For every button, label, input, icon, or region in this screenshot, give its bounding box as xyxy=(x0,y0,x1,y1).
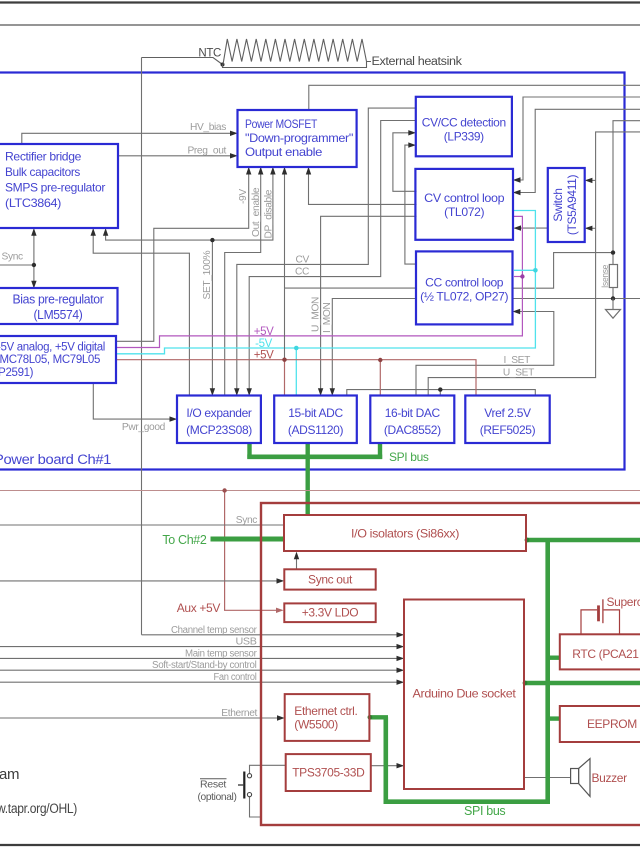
svg-text:Channel temp sensor: Channel temp sensor xyxy=(171,625,257,636)
junction -5V cyan right xyxy=(533,268,538,273)
block CV control loop (TL072) xyxy=(415,169,513,240)
wire Main temp sensor xyxy=(0,657,398,659)
svg-text:TPS3705-33D: TPS3705-33D xyxy=(292,766,365,780)
svg-text:CC: CC xyxy=(295,267,309,278)
wire switch to CV loop xyxy=(516,227,548,229)
svg-text:-5V: -5V xyxy=(255,338,273,350)
svg-text:I_SET: I_SET xyxy=(503,355,530,366)
junction Aux +5V xyxy=(222,488,226,492)
ground symbol xyxy=(612,299,614,310)
junction NTC xyxy=(221,63,225,67)
svg-text:Output enable: Output enable xyxy=(245,145,323,159)
svg-text:(½ TL072, OP27): (½ TL072, OP27) xyxy=(420,290,508,304)
svg-text:U_SET: U_SET xyxy=(503,368,534,379)
junction SPI isolators xyxy=(525,538,530,543)
wire MOSFET bottom pin 4 xyxy=(284,168,286,288)
block I/O expander (MCP23S08) xyxy=(177,396,261,444)
svg-text:-5V analog, +5V digital: -5V analog, +5V digital xyxy=(0,342,105,354)
wire voltage sense B from right edge to CV loop xyxy=(515,109,640,192)
arrowhead Out enable into MOSFET xyxy=(258,167,263,175)
svg-text:(LTC3864): (LTC3864) xyxy=(5,196,61,210)
block 15-bit ADC (ADS1120) xyxy=(274,396,357,444)
wire I/O expander to rectifier enable xyxy=(93,230,189,395)
svg-text:DP_disable: DP_disable xyxy=(264,189,275,238)
block -5V analog +5V digital regulators xyxy=(0,336,116,383)
arrowhead into isolators bottom xyxy=(294,552,299,560)
wire +5V digital (red) xyxy=(116,360,476,395)
wire Sync out to isolators xyxy=(296,554,298,569)
svg-text:Sync: Sync xyxy=(2,252,24,263)
wire MOSFET net to CC loop xyxy=(285,287,417,289)
wire I_MON xyxy=(332,299,416,394)
arrowhead into Sync out box xyxy=(277,578,285,583)
block Arduino Due socket xyxy=(404,600,524,790)
svg-text:I/O isolators (Si86xx): I/O isolators (Si86xx) xyxy=(351,527,459,541)
svg-text:(LM5574): (LM5574) xyxy=(34,308,83,322)
svg-text:SPI bus: SPI bus xyxy=(389,450,429,464)
SPI bus trunk power side xyxy=(247,454,382,459)
junction SPI Arduino xyxy=(523,681,528,686)
wire -5V cyan branch into CC loop xyxy=(514,269,535,271)
wire channel temp sensor vertical xyxy=(141,58,143,635)
wire CC loop to Isense top xyxy=(513,253,614,289)
arrowhead Main temp sensor into Arduino xyxy=(397,656,405,661)
arrowhead Aux +5V into LDO xyxy=(276,608,284,613)
svg-text:SMPS pre-regulator: SMPS pre-regulator xyxy=(5,181,105,195)
svg-text:am: am xyxy=(0,766,19,783)
wire -5V analog (cyan) xyxy=(116,211,535,354)
svg-text:HV_bias: HV_bias xyxy=(190,122,226,133)
wire CC loop output to detector xyxy=(405,145,416,264)
wire HV_bias xyxy=(22,133,231,143)
arrowhead into rectifier bottom 3 xyxy=(103,228,108,236)
svg-text:Pwr_good: Pwr_good xyxy=(122,422,166,433)
wire NTC feed xyxy=(142,58,223,65)
SPI bus Arduino to right edge xyxy=(524,681,640,686)
wire reset button bottom xyxy=(250,797,262,817)
frame line top xyxy=(0,1,640,3)
junction -5V cyan left xyxy=(294,346,299,351)
SPI bus branch Ethernet xyxy=(369,715,388,719)
NTC coil baseline xyxy=(223,62,367,68)
svg-text:Power board Ch#1: Power board Ch#1 xyxy=(0,452,111,467)
block +3.3V LDO xyxy=(284,603,375,622)
block EEPROM xyxy=(560,706,640,742)
svg-text:USB: USB xyxy=(236,637,258,648)
wire Arduino to buzzer xyxy=(524,777,571,779)
arrowhead into CV/CC detection 1 xyxy=(408,130,416,135)
svg-text:+5V: +5V xyxy=(254,350,274,362)
svg-text:Preg_out: Preg_out xyxy=(187,146,226,157)
arrowhead switch into CV loop xyxy=(513,225,521,230)
arrowhead Pwr_good into I/O expander xyxy=(170,416,178,421)
frame line second xyxy=(0,24,640,26)
svg-text:EEPROM: EEPROM xyxy=(587,717,637,731)
wire MOSFET power output to right edge xyxy=(309,85,640,109)
block rectifier bridge / SMPS pre-regulator (LTC3864) xyxy=(0,144,118,228)
wire DP disable net xyxy=(106,168,273,240)
capacitor supercap xyxy=(581,610,597,634)
junction Vref branch xyxy=(438,387,442,391)
arrowhead I_MON into ADC xyxy=(330,388,335,396)
arrowhead Fan control into Arduino xyxy=(397,680,405,685)
svg-text:(DAC8552): (DAC8552) xyxy=(384,423,441,437)
wire Sync from left edge xyxy=(0,264,34,266)
svg-text:Arduino Due socket: Arduino Due socket xyxy=(413,687,517,701)
wire I_SET net xyxy=(416,312,554,395)
arrowhead Soft-start/Stand-by control into Arduino xyxy=(397,668,405,673)
svg-text:Main temp sensor: Main temp sensor xyxy=(185,648,257,659)
arrowhead USB into Arduino xyxy=(397,644,405,649)
svg-text:To Ch#2: To Ch#2 xyxy=(162,533,207,547)
wire Isense bottom / output return xyxy=(513,298,640,300)
wire U_SET net xyxy=(428,132,640,395)
wire aux supply rail xyxy=(0,490,640,492)
arrowhead U_MON into ADC xyxy=(318,388,323,396)
wire +5V red branch up into MOSFET xyxy=(284,288,286,360)
wire CV loop to MOSFET xyxy=(309,168,417,204)
junction Isense bottom xyxy=(611,296,615,300)
svg-text:(ADS1120): (ADS1120) xyxy=(288,423,344,437)
svg-text:(LP339): (LP339) xyxy=(444,130,484,144)
wire Vref branch to DAC xyxy=(439,390,441,395)
svg-text:Sync out: Sync out xyxy=(308,573,353,587)
arrowhead Preg_out into MOSFET xyxy=(230,153,238,158)
wire Preg_out xyxy=(117,155,230,157)
svg-text:(optional): (optional) xyxy=(198,792,237,803)
block power MOSFET down-programmer xyxy=(238,110,357,167)
wire SET 100% vertical xyxy=(211,240,213,394)
arrowhead into rectifier bottom 2 xyxy=(91,228,96,236)
wire Soft-start/Stand-by control xyxy=(0,669,398,671)
wire Isense resistor bottom lead xyxy=(612,288,614,299)
svg-text:Aux +5V: Aux +5V xyxy=(177,601,221,615)
block CV/CC detection (LP339) xyxy=(416,97,512,157)
arrowhead reset into Arduino xyxy=(397,763,405,768)
arrowhead into switch 2 xyxy=(585,226,593,231)
power board Ch#1 outline xyxy=(0,73,625,470)
svg-text:w.tapr.org/OHL): w.tapr.org/OHL) xyxy=(0,801,77,816)
wire Vref 2.5V distribution xyxy=(347,390,536,395)
svg-text:Bias pre-regulator: Bias pre-regulator xyxy=(13,293,104,307)
wire stub to switch input 2 xyxy=(587,227,596,229)
wire TPS3705 to Arduino xyxy=(371,765,397,767)
arrowhead into MOSFET bottom 4 xyxy=(282,167,287,175)
junction Isense top xyxy=(611,250,615,254)
wire Isense resistor top lead xyxy=(612,253,614,265)
svg-text:Rectifier bridge: Rectifier bridge xyxy=(5,150,82,164)
svg-text:CC control loop: CC control loop xyxy=(425,276,504,290)
block sync out xyxy=(284,569,375,589)
svg-text:External heatsink: External heatsink xyxy=(372,56,463,68)
wire +5V analog (magenta) xyxy=(116,216,522,347)
svg-text:Fan control: Fan control xyxy=(214,672,257,683)
wire +5V red branch into DAC xyxy=(379,360,381,395)
wire Sync to isolators xyxy=(0,524,284,526)
svg-text:(TP2591): (TP2591) xyxy=(0,367,34,379)
svg-text:Supercap: Supercap xyxy=(607,595,640,609)
arrowhead CV loop into MOSFET xyxy=(306,167,311,175)
block I/O isolators (Si86xx) xyxy=(284,515,526,551)
svg-text:Isense: Isense xyxy=(600,265,611,288)
arrowhead sense B into CV loop xyxy=(513,190,521,195)
svg-text:(TS5A9411): (TS5A9411) xyxy=(565,174,579,235)
arrowhead into switch 1 xyxy=(585,178,593,183)
wire U_MON xyxy=(321,216,417,393)
junction +5V magenta xyxy=(520,274,524,278)
wire reset button top xyxy=(250,765,286,773)
wire To Ch#2 (green) xyxy=(211,537,285,542)
SPI bus from DAC xyxy=(378,443,382,459)
wire +5V magenta branch into CC loop xyxy=(514,276,522,278)
svg-text:I_MON: I_MON xyxy=(322,302,333,333)
wire rectifier to bias pre-regulator xyxy=(33,230,35,288)
SPI bus branch RTC xyxy=(548,656,560,660)
wire sync out feed xyxy=(0,580,277,582)
svg-text:Sync: Sync xyxy=(236,515,258,526)
buzzer speaker symbol xyxy=(571,769,579,784)
svg-text:Buzzer: Buzzer xyxy=(592,771,628,785)
resistor Isense xyxy=(609,265,617,288)
wire CV loop output to detector xyxy=(393,133,417,192)
wire channel temp sensor to Arduino xyxy=(142,634,399,636)
arrowhead sense A into CV loop xyxy=(513,177,521,182)
junction +5V red right xyxy=(378,358,382,362)
svg-text:Switch: Switch xyxy=(551,188,565,221)
svg-text:(TL072): (TL072) xyxy=(444,205,484,219)
wire Aux +5V xyxy=(225,491,277,611)
block Ethernet controller (W5500) xyxy=(285,694,370,741)
svg-text:(MC78L05, MC79L05: (MC78L05, MC79L05 xyxy=(0,354,100,366)
svg-text:Soft-start/Stand-by control: Soft-start/Stand-by control xyxy=(152,660,257,671)
arrowhead CV status into I/O expander xyxy=(234,388,239,396)
block Vref 2.5V (REF5025) xyxy=(465,396,549,444)
arrowhead channel temp into Arduino xyxy=(397,632,405,637)
SPI bus vertical digital xyxy=(545,540,550,804)
svg-text:Vref 2.5V: Vref 2.5V xyxy=(484,406,531,420)
wire CV status net xyxy=(237,108,416,394)
wire Out enable net xyxy=(225,168,261,395)
junction Sync xyxy=(32,263,36,267)
svg-text:Reset: Reset xyxy=(200,780,226,791)
wire USB xyxy=(0,646,398,648)
digital board outline xyxy=(261,503,640,825)
arrowhead I_SET into CC loop xyxy=(513,309,521,314)
svg-text:"Down-programmer": "Down-programmer" xyxy=(245,131,353,145)
wire Fan control xyxy=(0,681,398,683)
arrowhead into rectifier bottom xyxy=(31,228,36,236)
arrowhead -9V into MOSFET xyxy=(246,167,251,175)
junction +5V red left xyxy=(282,358,286,362)
wire CC status net xyxy=(249,121,416,395)
svg-text:(MCP23S08): (MCP23S08) xyxy=(186,423,252,437)
block RTC (PCA21xx) xyxy=(560,634,640,669)
svg-text:CV: CV xyxy=(296,255,310,266)
svg-text:Power MOSFET: Power MOSFET xyxy=(245,117,318,131)
SPI bus trunk digital xyxy=(386,799,550,804)
SPI bus branch EEPROM xyxy=(548,716,560,720)
SPI bus from I/O expander xyxy=(247,443,251,459)
arrowhead HV_bias into MOSFET xyxy=(230,131,238,136)
junction SPI Ethernet xyxy=(368,715,373,720)
wire voltage sense A from right edge to CV loop xyxy=(515,97,640,180)
wire -9V net xyxy=(116,168,249,341)
svg-text:NTC: NTC xyxy=(198,48,221,60)
arrowhead into CV/CC detection 2 xyxy=(408,142,416,147)
switch SW reset pushbutton xyxy=(247,774,251,778)
arrowhead CC status into I/O expander xyxy=(247,388,252,396)
frame line bottom xyxy=(0,844,640,846)
arrowhead Ethernet into controller xyxy=(277,715,285,720)
svg-text:RTC (PCA21: RTC (PCA21 xyxy=(572,647,639,661)
SPI bus vertical from Ethernet xyxy=(383,717,388,804)
svg-text:CV/CC detection: CV/CC detection xyxy=(422,116,506,130)
svg-text:Ethernet: Ethernet xyxy=(221,708,257,719)
svg-text:15-bit ADC: 15-bit ADC xyxy=(288,406,343,420)
wire stub to switch input 1 xyxy=(587,179,596,181)
svg-text:+3.3V LDO: +3.3V LDO xyxy=(302,606,359,620)
junction SET 100% xyxy=(210,238,214,242)
svg-text:-9V: -9V xyxy=(238,189,249,204)
thermistor NTC coil (external heatsink) xyxy=(223,39,371,65)
SPI bus from ADC down to isolators xyxy=(306,443,310,515)
svg-text:Out_enable: Out_enable xyxy=(251,187,262,237)
svg-text:I/O expander: I/O expander xyxy=(186,406,252,420)
svg-text:Bulk capacitors: Bulk capacitors xyxy=(5,165,80,179)
svg-text:16-bit DAC: 16-bit DAC xyxy=(385,406,441,420)
svg-text:SET_100%: SET_100% xyxy=(202,250,213,299)
wire Ethernet xyxy=(0,717,278,719)
svg-text:CV control loop: CV control loop xyxy=(424,191,505,205)
wire Pwr_good xyxy=(93,384,170,420)
arrowhead DP disable into MOSFET xyxy=(270,167,275,175)
block TPS3705-33D supervisor xyxy=(286,754,371,791)
svg-text:(REF5025): (REF5025) xyxy=(480,423,536,437)
svg-text:+5V: +5V xyxy=(254,326,274,338)
arrowhead into bias top xyxy=(31,281,36,289)
svg-text:U_MON: U_MON xyxy=(311,297,322,332)
arrowhead SET 100% into I/O expander xyxy=(210,388,215,396)
block switch (TS5A9411) xyxy=(548,168,585,242)
SPI bus isolators to right edge xyxy=(526,538,640,543)
wire +5V red branch into ADC xyxy=(284,360,286,395)
block 16-bit DAC (DAC8552) xyxy=(370,396,454,444)
svg-text:Ethernet ctrl.: Ethernet ctrl. xyxy=(294,704,357,718)
block CC control loop (half TL072, OP27) xyxy=(416,251,513,324)
block bias pre-regulator (LM5574) xyxy=(0,288,118,324)
wire -5V cyan branch into ADC xyxy=(295,348,297,395)
wire Isense top from right edge xyxy=(613,121,640,253)
svg-text:SPI bus: SPI bus xyxy=(464,804,505,818)
svg-text:(W5500): (W5500) xyxy=(294,718,338,732)
